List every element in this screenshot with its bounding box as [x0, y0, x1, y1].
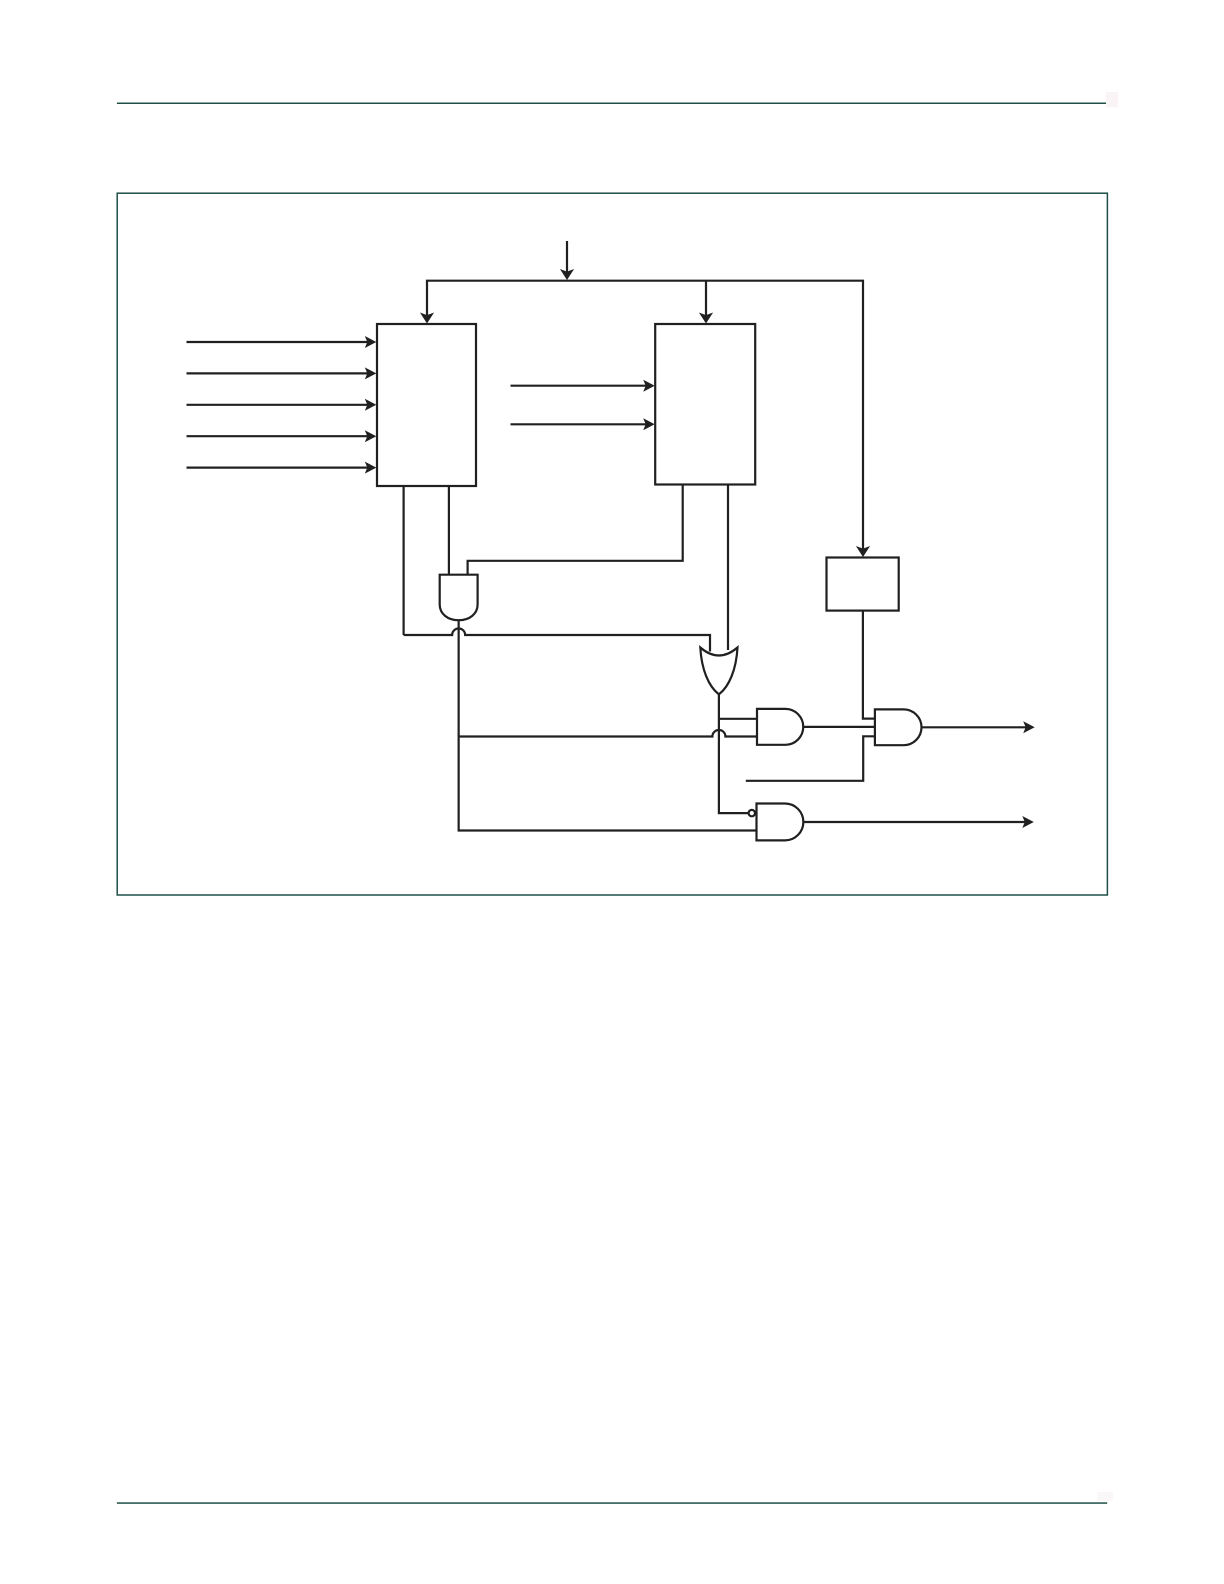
- wire branch down to block2 at x=706: [705, 281, 707, 317]
- block1 register: [377, 324, 476, 486]
- wire filter box output down then right to AND4 input1: [863, 611, 875, 719]
- arrowhead into filter box top: [856, 546, 870, 557]
- wire output 2: [803, 821, 1027, 823]
- arrowhead input 5: [365, 462, 377, 474]
- wire AND1 output vertical down, corner right to AND5 lower input: [459, 620, 757, 830]
- block2 input arrow line 2: [511, 423, 649, 425]
- input arrow line 2: [187, 372, 371, 374]
- wire open stub up to AND4 input3: [746, 736, 875, 781]
- wire branch OR output to AND2 input1: [719, 718, 757, 720]
- wire block2 bottom-right to OR input2: [727, 485, 729, 651]
- input arrow line 1: [187, 341, 371, 343]
- arrowhead into block2 top: [699, 313, 713, 324]
- filter box U6: [827, 558, 899, 611]
- wire block1 bottom-left down: [403, 486, 405, 635]
- block2 register: [655, 324, 755, 485]
- wire block1 bottom-right to AND1 input1: [448, 486, 450, 574]
- faint footer ghost bottom right: [1097, 1492, 1113, 1501]
- wire branch AND1 net to AND2 input2 with hop over OR output: [459, 730, 757, 737]
- footer rule: [117, 1502, 1107, 1504]
- inverting bubble on AND5 input1: [749, 810, 755, 816]
- arrowhead output 2: [1022, 816, 1034, 828]
- figure frame: [117, 193, 1107, 895]
- wire top entry vertical: [566, 241, 568, 274]
- arrowhead block2 input 2: [643, 418, 655, 430]
- AND gate U3: [757, 709, 803, 745]
- AND gate U4: [875, 709, 922, 745]
- wire block2 bottom-left to AND1 input2: [468, 485, 683, 575]
- wire OR output down then right into inverting bubble of AND5: [719, 694, 749, 813]
- AND gate U5 with inverting input: [757, 804, 804, 841]
- input arrow line 4: [187, 435, 371, 437]
- wire AND3 output to AND4 middle input: [803, 726, 875, 728]
- block2 input arrow line 1: [511, 385, 649, 387]
- input arrow line 5: [187, 467, 371, 469]
- arrowhead block2 input 1: [643, 380, 655, 392]
- arrowhead input 4: [365, 430, 377, 442]
- wire horizontal y=635 with hop over AND1 output, corner down into OR input1: [404, 629, 710, 652]
- AND gate U1 (vertical): [440, 575, 478, 621]
- arrowhead onto top bus: [560, 269, 574, 280]
- arrowhead input 2: [365, 367, 377, 379]
- arrowhead input 1: [365, 336, 377, 348]
- wire output 1: [922, 726, 1029, 728]
- arrowhead into block1 top: [420, 313, 434, 324]
- arrowhead input 3: [365, 399, 377, 411]
- input arrow line 3: [187, 404, 371, 406]
- arrowhead output 1: [1023, 721, 1034, 733]
- faint logo ghost top right: [1106, 92, 1118, 107]
- header rule: [117, 103, 1107, 105]
- OR gate U2 (vertical): [700, 648, 737, 695]
- wire top horizontal bus y=280 with corners down at x=427 and x=863: [427, 281, 863, 551]
